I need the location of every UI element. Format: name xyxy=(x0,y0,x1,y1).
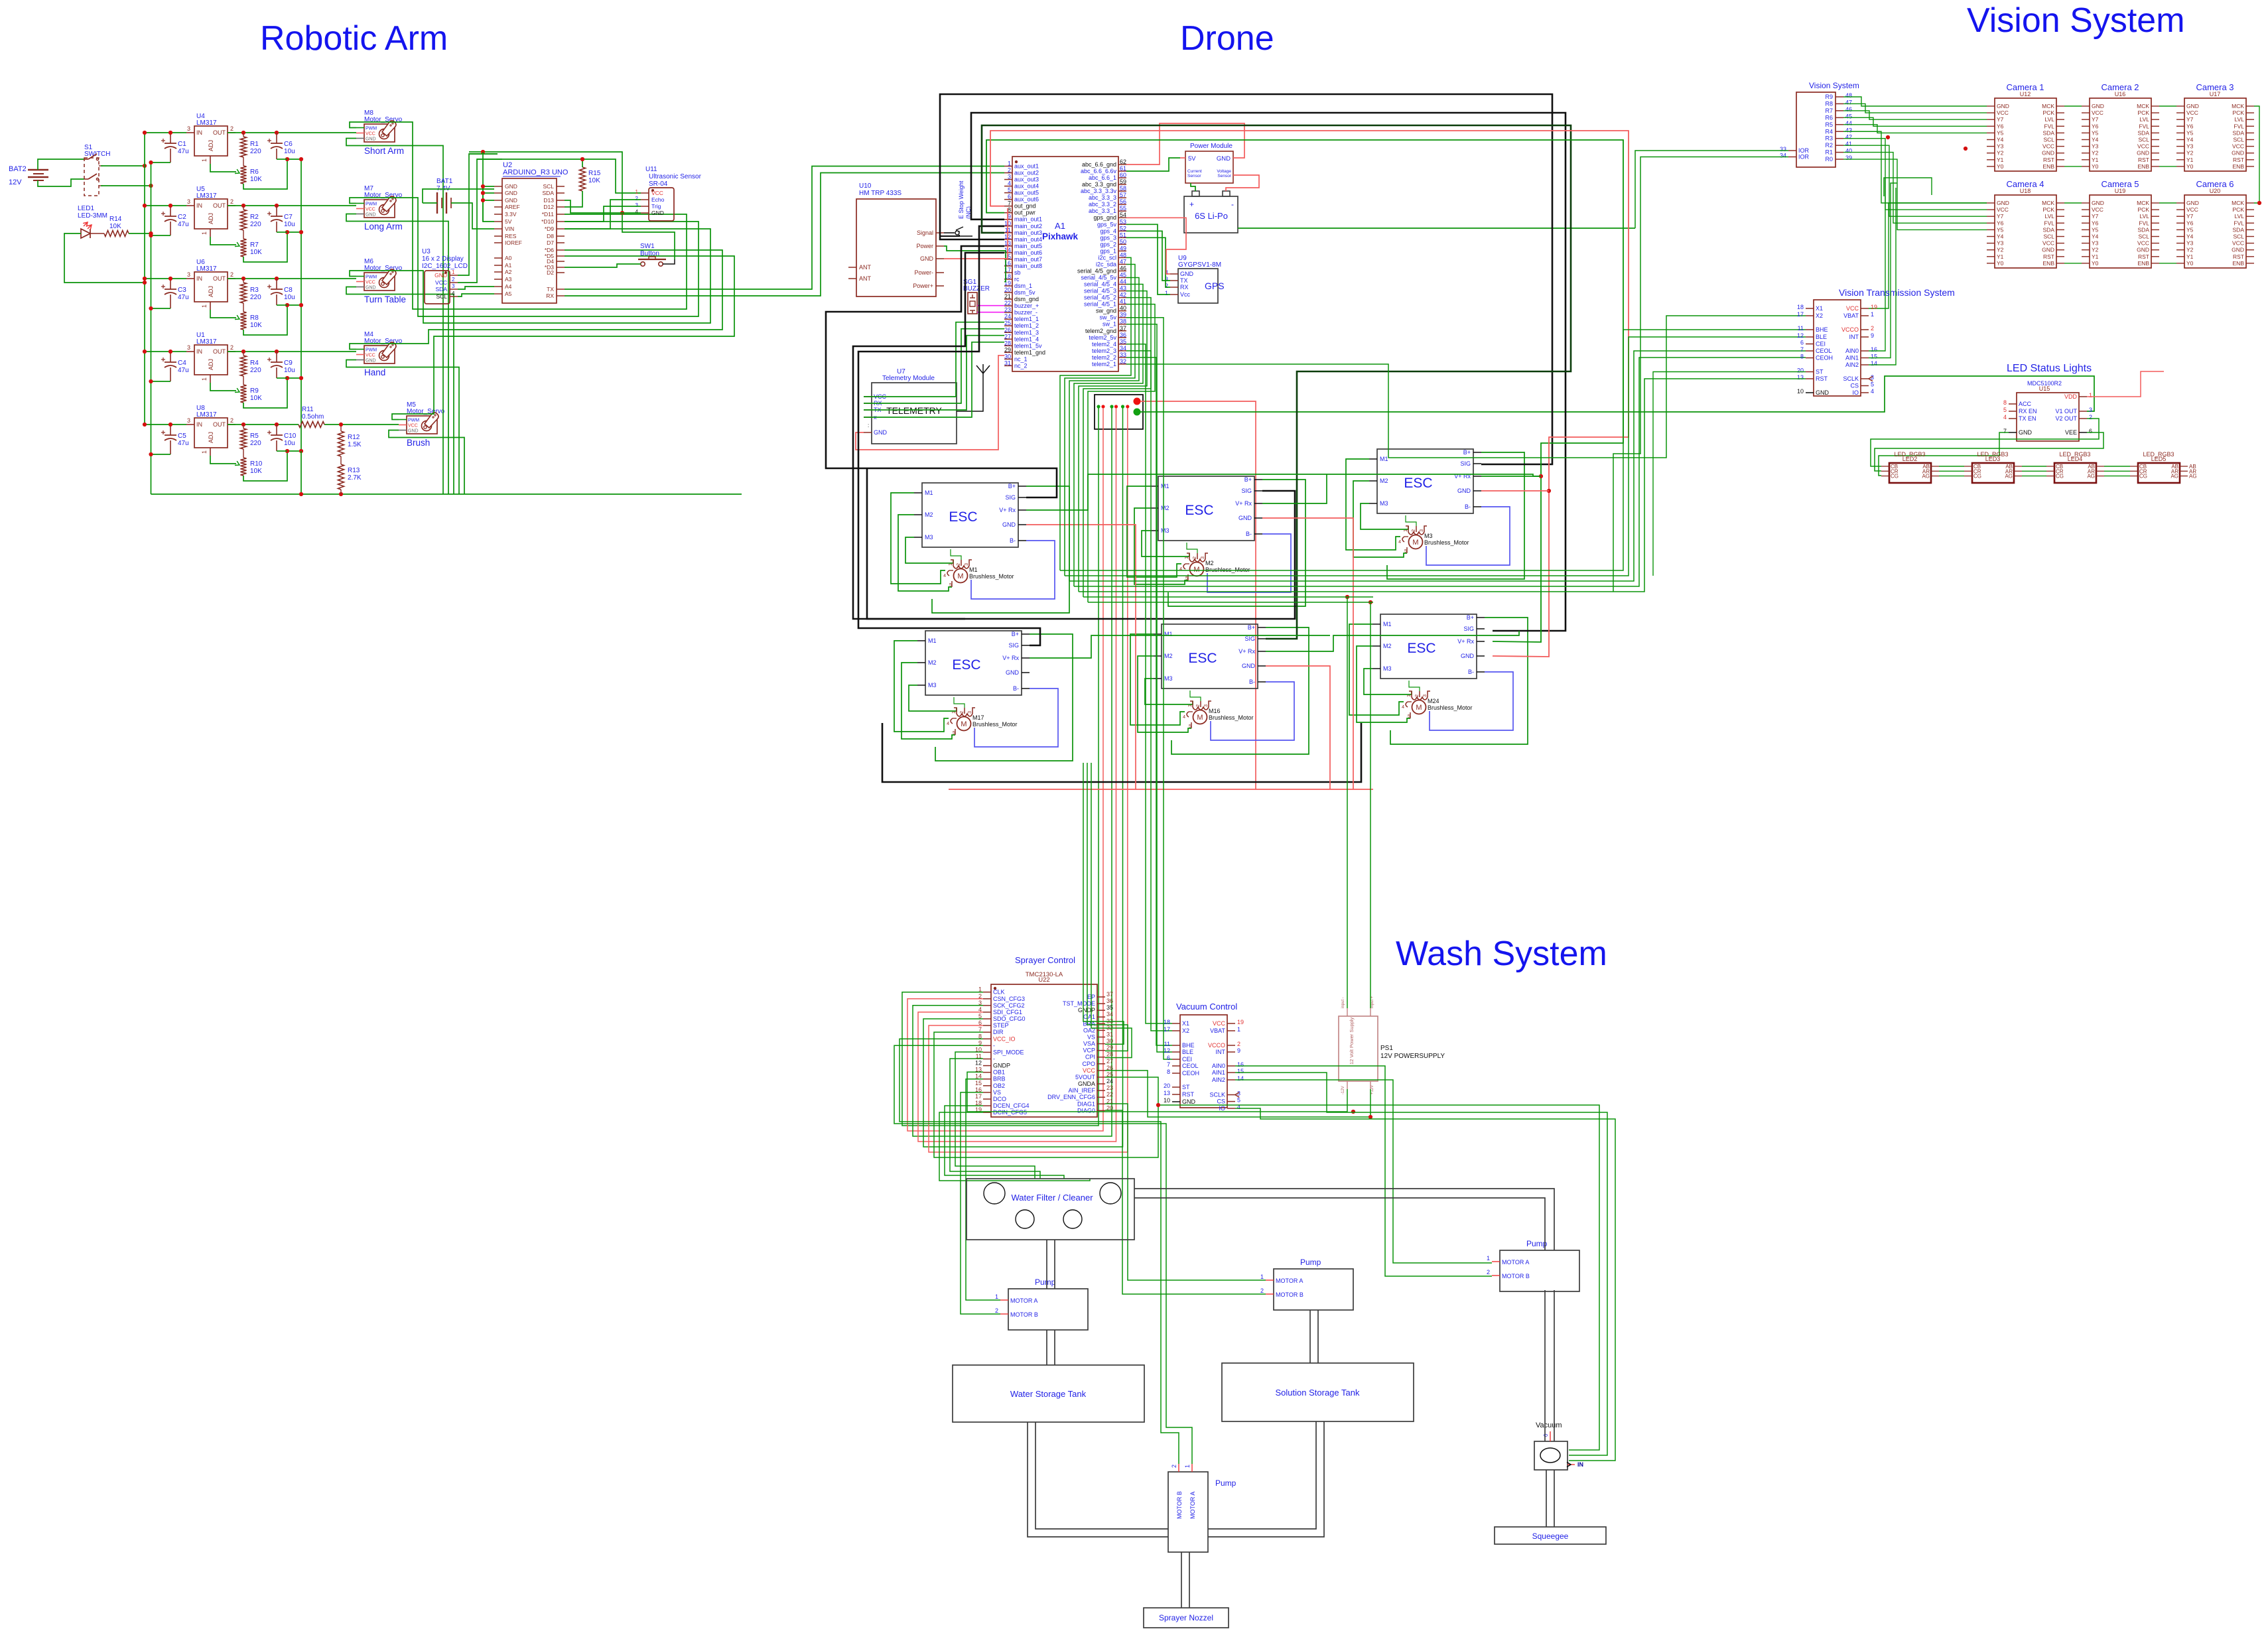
wire ADJ U4 xyxy=(210,164,236,172)
svg-text:3: 3 xyxy=(1008,174,1011,180)
svg-text:43: 43 xyxy=(1120,285,1126,292)
svg-text:out_gnd: out_gnd xyxy=(1014,203,1036,210)
svg-text:Trig: Trig xyxy=(651,203,661,210)
svg-text:-: - xyxy=(993,1042,995,1049)
esc ESC5 xyxy=(1162,624,1258,688)
svg-text:OB1: OB1 xyxy=(993,1069,1005,1076)
pin U22 27 CPO xyxy=(1097,1063,1105,1065)
wire pin62 to pm GND xyxy=(1126,123,1244,164)
svg-text:RX EN: RX EN xyxy=(2019,408,2037,415)
wire VC IO to vacuum feed xyxy=(1235,1108,1615,1461)
svg-text:15: 15 xyxy=(1871,354,1877,360)
svg-text:Squeegee: Squeegee xyxy=(1532,1532,1569,1541)
pin U7 VCC xyxy=(864,396,872,397)
svg-text:HM TRP 433S: HM TRP 433S xyxy=(859,190,901,197)
svg-text:33: 33 xyxy=(1120,352,1126,358)
wire camera chain row2 enb xyxy=(2159,263,2176,264)
svg-text:3: 3 xyxy=(187,417,190,424)
svg-text:2: 2 xyxy=(1415,694,1420,697)
svg-text:aux_out4: aux_out4 xyxy=(1014,183,1039,190)
svg-text:25: 25 xyxy=(1004,320,1011,326)
svg-text:R10: R10 xyxy=(250,460,263,468)
svg-text:26: 26 xyxy=(1004,326,1011,333)
svg-text:R5: R5 xyxy=(1825,121,1833,128)
svg-text:Pump: Pump xyxy=(1526,1239,1548,1248)
svg-text:RX: RX xyxy=(546,293,554,299)
svg-text:U3: U3 xyxy=(422,248,431,255)
svg-text:serial_4/5_4: serial_4/5_4 xyxy=(1084,281,1116,288)
svg-text:5: 5 xyxy=(978,1013,982,1019)
svg-text:Vacuum: Vacuum xyxy=(1536,1421,1562,1429)
resistor R3 220 xyxy=(241,283,247,303)
svg-text:BRB: BRB xyxy=(993,1076,1006,1082)
wire bundle serial 4 to PS1 area xyxy=(1083,596,1373,598)
svg-text:GND: GND xyxy=(1997,200,2009,206)
svg-text:Power: Power xyxy=(916,243,933,249)
svg-text:Y6: Y6 xyxy=(2186,123,2194,129)
svg-text:GND: GND xyxy=(1457,488,1471,494)
potentiometer R10 10K xyxy=(241,458,247,476)
svg-text:3: 3 xyxy=(187,271,190,278)
svg-text:GND: GND xyxy=(505,197,517,204)
pin Vacuum 0 xyxy=(1550,1431,1551,1441)
svg-text:U19: U19 xyxy=(2115,188,2126,194)
svg-text:PWM: PWM xyxy=(366,275,377,280)
svg-text:telem1_3: telem1_3 xyxy=(1014,329,1039,336)
svg-text:Y7: Y7 xyxy=(1997,213,2004,220)
svg-text:M: M xyxy=(1416,704,1422,712)
svg-text:-12V: -12V xyxy=(1341,1086,1345,1094)
svg-text:220: 220 xyxy=(250,148,261,155)
svg-text:A1: A1 xyxy=(1055,221,1065,231)
pin U15 V2 OUT xyxy=(2079,418,2087,419)
svg-text:4: 4 xyxy=(947,722,949,726)
wire SIG main_out3 to ESC5 dark green xyxy=(982,125,1571,639)
capacitor C4 47u xyxy=(165,361,176,363)
svg-text:SR-04: SR-04 xyxy=(649,180,668,188)
pin U11 Echo xyxy=(641,199,649,200)
svg-text:GND: GND xyxy=(366,213,376,218)
svg-text:ADJ: ADJ xyxy=(208,140,214,151)
wire TMC SPI to filter 1 xyxy=(955,1052,1035,1179)
svg-text:GND: GND xyxy=(505,190,517,196)
svg-text:V2 OUT: V2 OUT xyxy=(2055,415,2077,422)
svg-text:CSN_CFG3: CSN_CFG3 xyxy=(993,996,1025,1002)
svg-text:2: 2 xyxy=(1237,1041,1240,1047)
svg-text:GND: GND xyxy=(366,359,376,363)
wire motor coil2 xyxy=(1187,543,1197,553)
wire esc M1 loop xyxy=(1346,459,1400,550)
svg-text:IN: IN xyxy=(196,348,202,355)
svg-text:15: 15 xyxy=(1237,1068,1244,1075)
wire camera chain row2 enb xyxy=(2064,263,2082,264)
svg-text:Y2: Y2 xyxy=(1997,150,2004,157)
svg-text:DCEN_CFG4: DCEN_CFG4 xyxy=(993,1102,1030,1109)
pin VC INT xyxy=(1227,1051,1235,1053)
svg-text:Y3: Y3 xyxy=(1997,240,2004,247)
wire led dot to sprayer control xyxy=(929,408,1128,1152)
svg-text:ADJ: ADJ xyxy=(208,213,214,224)
svg-text:abc_3.3_gnd: abc_3.3_gnd xyxy=(1082,181,1116,188)
svg-text:48: 48 xyxy=(1120,251,1126,258)
svg-text:Y5: Y5 xyxy=(2186,129,2194,136)
pin U22 9 - xyxy=(983,1045,991,1046)
svg-text:6: 6 xyxy=(2089,428,2092,434)
svg-text:39: 39 xyxy=(1120,312,1126,318)
pin VC X2 xyxy=(1172,1030,1180,1031)
svg-text:19: 19 xyxy=(1871,304,1877,310)
svg-text:3: 3 xyxy=(187,198,190,205)
svg-text:telem2_2: telem2_2 xyxy=(1092,354,1116,361)
battery 6S Li-Po xyxy=(1184,196,1238,233)
svg-text:M3: M3 xyxy=(1380,500,1388,507)
pin U11 VCC xyxy=(641,192,649,194)
svg-text:ADJ: ADJ xyxy=(208,286,214,297)
pin A1 16 main_out8 xyxy=(1004,265,1012,267)
svg-text:DIAG0: DIAG0 xyxy=(1077,1107,1095,1114)
svg-text:ENB: ENB xyxy=(2233,163,2245,170)
pin A1 30 nc_1 xyxy=(1004,358,1012,360)
pin U22 35 GNDP xyxy=(1097,1010,1105,1011)
wire ADJ U8 xyxy=(210,456,236,464)
pin VC CEOL xyxy=(1172,1065,1180,1067)
svg-text:AIN0: AIN0 xyxy=(1212,1063,1225,1069)
svg-text:41: 41 xyxy=(1845,141,1852,147)
wire esc M3 loop xyxy=(1142,531,1189,557)
svg-text:SDI_CFG1: SDI_CFG1 xyxy=(993,1009,1022,1016)
svg-text:SCLK: SCLK xyxy=(1843,375,1859,382)
svg-text:1: 1 xyxy=(2089,392,2092,399)
svg-text:GPS: GPS xyxy=(1205,281,1225,291)
svg-text:2: 2 xyxy=(230,344,233,351)
svg-text:8: 8 xyxy=(1800,354,1804,360)
svg-text:GND: GND xyxy=(2137,247,2149,253)
svg-text:VCC: VCC xyxy=(1846,305,1859,312)
svg-text:19: 19 xyxy=(1237,1019,1244,1025)
svg-text:5: 5 xyxy=(1008,187,1011,194)
svg-text:Sprayer Control: Sprayer Control xyxy=(1015,955,1075,965)
svg-text:SDA: SDA xyxy=(436,286,448,293)
pin U14 R0 xyxy=(1835,159,1843,160)
svg-text:GND: GND xyxy=(2232,247,2244,253)
wire U14 R to cameras xyxy=(1843,117,1987,126)
wire esc M3 loop xyxy=(1361,503,1408,529)
svg-text:U17: U17 xyxy=(2210,91,2221,98)
svg-text:6S Li-Po: 6S Li-Po xyxy=(1195,211,1228,221)
wire ESC3 V+Rx to bus xyxy=(1481,476,1541,477)
svg-text:CG: CG xyxy=(1891,474,1899,480)
wire VT AIN0 up xyxy=(1869,178,1885,351)
svg-text:Voltage: Voltage xyxy=(1217,169,1231,174)
wire led chain xyxy=(2022,466,2046,467)
svg-text:OB2: OB2 xyxy=(993,1082,1005,1089)
pin U22 24 GNDA xyxy=(1097,1083,1105,1084)
pin A1 57 abc_3.3_3 xyxy=(1118,197,1126,198)
svg-text:4: 4 xyxy=(1871,388,1874,395)
pin A1 24 telem1_1 xyxy=(1004,318,1012,320)
pin U2 D8 xyxy=(557,235,565,237)
pin U22 25 5VOUT xyxy=(1097,1077,1105,1078)
svg-text:20: 20 xyxy=(1797,367,1804,374)
wire esc M2 loop xyxy=(1353,481,1407,557)
led small dot xyxy=(1126,405,1129,408)
wire TMC VSA to drone corridor xyxy=(1083,763,1124,1044)
wire ADJ U1 xyxy=(210,383,236,391)
svg-text:Short Arm: Short Arm xyxy=(364,146,404,156)
svg-text:40: 40 xyxy=(1845,148,1852,155)
svg-text:M1: M1 xyxy=(1161,483,1169,490)
wire bottom bus xyxy=(151,493,742,495)
svg-text:SCL: SCL xyxy=(2043,137,2054,143)
svg-text:54: 54 xyxy=(1120,212,1126,218)
svg-text:42: 42 xyxy=(1845,134,1852,141)
wire led chain xyxy=(2022,470,2046,472)
svg-text:Y3: Y3 xyxy=(2186,143,2194,150)
svg-text:GND: GND xyxy=(2186,103,2199,109)
wire motor coil2 xyxy=(1409,681,1420,691)
svg-text:44: 44 xyxy=(1120,279,1126,285)
pin A1 49 gps_1 xyxy=(1118,250,1126,251)
wire return bus segment xyxy=(277,450,287,452)
wire GND column xyxy=(483,186,494,187)
pin VT AIN0 xyxy=(1861,350,1869,352)
svg-text:+: + xyxy=(1189,200,1194,209)
esc ESC2 xyxy=(1158,476,1254,541)
svg-text:R6: R6 xyxy=(1825,114,1833,121)
pin U22 34 OA1 xyxy=(1097,1016,1105,1017)
svg-text:RST: RST xyxy=(2233,157,2244,163)
pin U2 GND xyxy=(494,186,502,187)
svg-text:5: 5 xyxy=(1185,576,1188,581)
svg-text:Pump: Pump xyxy=(1215,1478,1236,1488)
wire esc M2 loop xyxy=(1138,656,1191,732)
pin VT ST xyxy=(1806,371,1814,373)
wire U14 R to cameras xyxy=(1843,131,1987,203)
pin U14 IOR xyxy=(1788,150,1796,151)
svg-text:main_out5: main_out5 xyxy=(1014,243,1042,249)
svg-text:GND: GND xyxy=(2232,150,2244,157)
pin VC VCCO xyxy=(1227,1045,1235,1046)
svg-text:62: 62 xyxy=(1120,159,1126,165)
svg-text:X1: X1 xyxy=(1816,305,1823,312)
svg-text:VS: VS xyxy=(993,1089,1001,1096)
svg-text:abc_3.3_3.3v: abc_3.3_3.3v xyxy=(1081,188,1117,194)
svg-text:13: 13 xyxy=(1164,1090,1170,1096)
svg-text:IO: IO xyxy=(1219,1105,1225,1112)
wire return bus to bottom xyxy=(300,451,302,494)
wire BAT2- to S1 xyxy=(38,179,84,186)
svg-text:PWM: PWM xyxy=(408,419,419,423)
svg-text:CEOL: CEOL xyxy=(1182,1063,1199,1069)
wire PS1 input+ up xyxy=(1370,602,1371,1008)
pin U22 14 BRB xyxy=(983,1079,991,1080)
pin VC ST xyxy=(1172,1086,1180,1088)
svg-text:10K: 10K xyxy=(250,249,262,256)
svg-text:41: 41 xyxy=(1120,298,1126,305)
pin U14 R1 xyxy=(1835,152,1843,153)
svg-text:FVL: FVL xyxy=(2234,123,2244,129)
pin A1 61 abc_6.6_6.6v xyxy=(1118,170,1126,172)
pin A1 25 telem1_2 xyxy=(1004,325,1012,326)
wire S1 out upper xyxy=(101,165,145,166)
pin U3 SCL xyxy=(450,296,458,297)
svg-text:SDA: SDA xyxy=(2043,129,2055,136)
svg-text:Y0: Y0 xyxy=(1997,163,2004,170)
svg-text:43: 43 xyxy=(1845,127,1852,133)
psu PS1 12V POWERSUPPLY xyxy=(1339,1016,1378,1081)
svg-text:GND: GND xyxy=(2019,429,2033,436)
svg-text:LED Status Lights: LED Status Lights xyxy=(2007,363,2092,374)
svg-text:1: 1 xyxy=(1185,557,1189,559)
svg-text:SDA: SDA xyxy=(543,190,555,196)
svg-text:23: 23 xyxy=(1106,1084,1113,1091)
pipe water tank to pump xyxy=(1028,1422,1168,1537)
motor M1 Brushless_Motor xyxy=(954,569,968,583)
pin U2 RX xyxy=(557,295,565,296)
pin A1 3 aux_out3 xyxy=(1004,179,1012,180)
wire telem2_2 to vacuum control BHE xyxy=(1126,358,1172,1045)
svg-text:GND: GND xyxy=(2042,150,2054,157)
svg-text:3: 3 xyxy=(452,283,455,289)
svg-text:main_out1: main_out1 xyxy=(1014,216,1042,223)
svg-text:RST: RST xyxy=(1816,375,1828,382)
svg-text:Y3: Y3 xyxy=(2092,143,2099,150)
svg-text:rc: rc xyxy=(1014,276,1020,283)
svg-text:VCC: VCC xyxy=(2137,240,2149,247)
capacitor C5 47u xyxy=(165,434,176,436)
svg-text:abc_6.6_gnd: abc_6.6_gnd xyxy=(1082,161,1116,168)
wire LED1-R14 xyxy=(90,233,104,234)
svg-text:12: 12 xyxy=(1797,332,1804,339)
svg-text:Y5: Y5 xyxy=(2186,226,2194,233)
svg-text:2: 2 xyxy=(978,993,982,1000)
pin U14 R7 xyxy=(1835,110,1843,111)
svg-text:7: 7 xyxy=(1800,346,1804,353)
wire PS1 input- up xyxy=(1347,597,1348,1008)
svg-text:OUT: OUT xyxy=(213,348,226,355)
wire esc B- blue xyxy=(971,541,1055,599)
pin U22 36 TST_MODE xyxy=(1097,1003,1105,1004)
svg-text:4: 4 xyxy=(943,574,946,578)
svg-text:IN: IN xyxy=(196,421,202,428)
wire esc M2 loop xyxy=(901,663,955,739)
svg-text:RST: RST xyxy=(2043,157,2054,163)
svg-text:Y3: Y3 xyxy=(2186,240,2194,247)
svg-text:5: 5 xyxy=(1237,1097,1240,1104)
svg-text:U16: U16 xyxy=(2115,91,2126,98)
pin VC X1 xyxy=(1172,1023,1180,1024)
svg-text:SIG: SIG xyxy=(1241,488,1252,494)
wire servo GND xyxy=(389,430,464,495)
pin A1 48 i2c_scl xyxy=(1118,257,1126,258)
wire return bus segment xyxy=(277,231,287,233)
svg-text:27: 27 xyxy=(1004,333,1011,340)
svg-text:*D10: *D10 xyxy=(541,218,554,225)
svg-text:220: 220 xyxy=(250,440,261,447)
svg-text:PWM: PWM xyxy=(366,202,377,207)
pin A1 2 aux_out2 xyxy=(1004,172,1012,174)
wire VT SCLK arrow xyxy=(1869,376,1873,381)
svg-text:M3: M3 xyxy=(928,682,937,688)
svg-text:LVL: LVL xyxy=(2140,213,2150,220)
svg-text:main_out4: main_out4 xyxy=(1014,236,1042,243)
svg-text:I2C_1602_LCD: I2C_1602_LCD xyxy=(422,263,468,270)
pipe vacuum to squeegee xyxy=(1546,1470,1547,1527)
svg-text:C1: C1 xyxy=(178,141,186,148)
pin U3 GND xyxy=(450,275,458,276)
wire pm 5V feed xyxy=(1180,157,1185,159)
pin U22 4 SDI_CFG1 xyxy=(983,1012,991,1013)
svg-text:OUT: OUT xyxy=(213,421,226,428)
svg-text:6: 6 xyxy=(1800,340,1804,346)
potentiometer R9 10K xyxy=(241,385,247,403)
svg-text:i2c_scl: i2c_scl xyxy=(1098,254,1116,261)
wire bundle i2c_scl right xyxy=(1060,330,1806,570)
svg-text:M: M xyxy=(1193,566,1199,574)
svg-text:A3: A3 xyxy=(505,276,512,283)
pin U7 RX xyxy=(864,403,872,404)
svg-text:5: 5 xyxy=(949,583,952,588)
led small dot xyxy=(1121,405,1124,408)
svg-text:R1: R1 xyxy=(1825,149,1833,156)
wire U10 power to rc xyxy=(944,246,1006,282)
wire return bus segment xyxy=(277,159,287,160)
pin U2 A1 xyxy=(494,265,502,266)
svg-text:37: 37 xyxy=(1120,325,1126,332)
pin U2 D2 xyxy=(557,272,565,273)
svg-text:C2: C2 xyxy=(178,214,186,221)
svg-text:Sensor: Sensor xyxy=(1187,174,1201,178)
svg-text:input -: input - xyxy=(1341,997,1345,1008)
svg-text:BUZZER: BUZZER xyxy=(963,285,990,293)
pin U9 GND xyxy=(1170,273,1178,275)
pin U14 R3 xyxy=(1835,138,1843,139)
wire vision junction dots xyxy=(1886,135,1890,139)
svg-text:3.3V: 3.3V xyxy=(505,211,517,218)
pin A1 62 abc_6.6_gnd xyxy=(1118,164,1126,165)
svg-text:GND: GND xyxy=(366,286,376,291)
svg-text:5: 5 xyxy=(1871,381,1874,388)
svg-text:35: 35 xyxy=(1120,338,1126,345)
svg-text:CG: CG xyxy=(1973,474,1981,480)
pin U2 A0 xyxy=(494,257,502,259)
wire ESC3 GND to bus xyxy=(1481,490,1549,492)
wire camera row2 feed xyxy=(1891,178,1932,195)
svg-text:53: 53 xyxy=(1120,218,1126,225)
svg-text:VBAT: VBAT xyxy=(1210,1027,1225,1034)
svg-text:sw_5v: sw_5v xyxy=(1099,314,1116,321)
wire buzzer- magenta xyxy=(977,312,1004,313)
svg-text:GND: GND xyxy=(1461,653,1475,659)
pin A1 27 telem1_4 xyxy=(1004,338,1012,340)
svg-text:1: 1 xyxy=(1008,161,1011,167)
svg-text:4: 4 xyxy=(2003,414,2007,421)
wire esc M2 loop xyxy=(1357,646,1410,722)
svg-text:28: 28 xyxy=(1106,1051,1113,1058)
svg-text:Y2: Y2 xyxy=(2186,247,2194,253)
svg-text:ST: ST xyxy=(1182,1084,1190,1090)
pin VC CS xyxy=(1227,1101,1235,1102)
svg-text:Long Arm: Long Arm xyxy=(364,222,403,231)
svg-text:ANT: ANT xyxy=(859,264,872,271)
pin U15 VEE xyxy=(2079,432,2087,433)
esc ESC3 xyxy=(1377,449,1473,513)
svg-text:MOTOR A: MOTOR A xyxy=(1189,1492,1196,1519)
svg-text:FVL: FVL xyxy=(2139,220,2149,226)
svg-text:AG: AG xyxy=(2189,474,2197,480)
svg-text:40: 40 xyxy=(1120,305,1126,312)
svg-text:48: 48 xyxy=(1845,92,1852,99)
